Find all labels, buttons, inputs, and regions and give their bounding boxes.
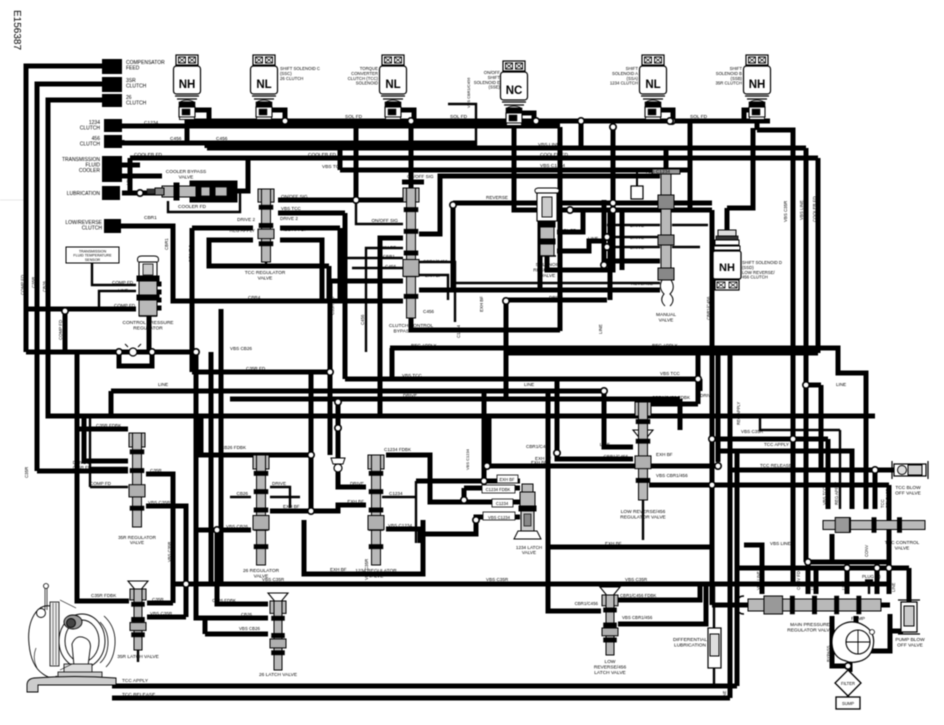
svg-text:DRIVE: DRIVE	[350, 481, 364, 486]
svg-text:VBS C1234: VBS C1234	[465, 448, 470, 470]
wire VBS TCC top	[340, 168, 690, 173]
solenoid NH shift solenoid B?	[174, 55, 201, 120]
junction	[554, 450, 560, 456]
wire onoff sig 2	[356, 200, 403, 224]
wire C1234 right	[382, 496, 416, 498]
svg-text:CBR1/C406: CBR1/C406	[526, 444, 551, 449]
junction	[669, 118, 675, 124]
wire DRIVE 2 left	[192, 226, 253, 231]
wire EXH BF bottom	[548, 545, 712, 550]
svg-text:EXH BF: EXH BF	[330, 567, 347, 572]
svg-text:VBS C35R: VBS C35R	[625, 577, 648, 582]
wire VBS TCC right	[278, 211, 345, 216]
junction	[335, 399, 341, 405]
svg-text:TCC BLOWOFF VALVE: TCC BLOWOFF VALVE	[895, 485, 921, 496]
junction	[461, 497, 467, 503]
svg-text:MAIN PRESSUREREGULATOR VALVE: MAIN PRESSUREREGULATOR VALVE	[787, 622, 833, 633]
junction	[872, 467, 878, 473]
wire C1234 drop long	[558, 127, 563, 331]
wire EXH BF 26-1234	[270, 505, 366, 511]
valve main pressure regulator	[748, 596, 881, 614]
valve 26 latch funnel	[268, 593, 288, 601]
svg-text:DRIVE: DRIVE	[630, 235, 644, 240]
wire cooler out	[236, 158, 248, 191]
wire CBR1/C456 right	[419, 262, 455, 322]
junction	[610, 200, 616, 206]
wire EXH BF	[366, 248, 403, 352]
wire sensor comp fd	[92, 262, 136, 285]
svg-text:CB26: CB26	[42, 280, 47, 292]
svg-text:NL: NL	[645, 79, 660, 91]
node spacer	[0, 199, 26, 201]
svg-text:COOLER FD: COOLER FD	[178, 204, 207, 210]
svg-text:VBS CBR1/C456: VBS CBR1/C456	[466, 77, 471, 108]
svg-text:VBS LINE: VBS LINE	[756, 571, 761, 590]
wire 456 stub	[120, 140, 125, 143]
wire mpr right link	[881, 603, 890, 608]
valve cooler bypass	[147, 181, 237, 202]
junction	[578, 118, 584, 124]
svg-text:CLUTCH CONTROLBYPASS VALVE: CLUTCH CONTROLBYPASS VALVE	[389, 323, 434, 334]
wire CB26 FDBK latch	[217, 530, 268, 604]
wire cooler stub1	[122, 163, 140, 168]
junction	[845, 663, 851, 669]
junction	[533, 118, 539, 124]
valve 26 regulator	[253, 455, 269, 565]
valve low reverse/456 regulator	[635, 402, 651, 500]
svg-text:C1234 FDBK: C1234 FDBK	[486, 487, 511, 492]
label box C1234 FDBK	[482, 485, 515, 493]
svg-text:C35R: C35R	[101, 468, 113, 473]
wire VBS TCC long	[345, 377, 700, 382]
svg-text:LINE: LINE	[722, 690, 727, 700]
svg-text:REG APPLY: REG APPLY	[736, 402, 741, 425]
svg-text:SOL FD: SOL FD	[690, 114, 708, 120]
svg-text:LINE: LINE	[118, 288, 128, 293]
junction	[116, 349, 122, 355]
valve control pressure regulator	[137, 256, 161, 316]
wire CBR1/C456 latch	[548, 391, 601, 611]
svg-text:VBS CBR1/456: VBS CBR1/456	[622, 615, 653, 620]
junction	[353, 197, 359, 203]
wire drive2 right drop	[338, 228, 343, 301]
wire REG APPLY right	[280, 240, 322, 301]
svg-text:REG APPLY: REG APPLY	[652, 343, 677, 348]
wire line right v	[819, 385, 824, 470]
wire DRIVE 1234	[345, 486, 366, 488]
junction	[473, 517, 479, 523]
wire TCC RELEASE	[730, 468, 875, 473]
wire fdbk rise	[696, 348, 701, 404]
svg-text:COOLER FD: COOLER FD	[864, 481, 869, 505]
wire vbs tcc drop	[343, 213, 348, 379]
wire solreg bottom	[547, 210, 613, 270]
wire VBS TCC tcc	[826, 439, 831, 509]
junction	[695, 376, 701, 382]
svg-text:VBS C35R: VBS C35R	[148, 500, 171, 505]
wire drive trunk	[608, 210, 613, 300]
wire comp fd drop	[89, 468, 91, 487]
wire comp fd mid	[26, 350, 192, 355]
transmission fluid temperature sensor	[66, 247, 119, 263]
valve 1234 latch	[514, 484, 541, 539]
svg-text:LINE: LINE	[891, 582, 896, 592]
svg-text:LINE: LINE	[125, 176, 130, 185]
wire vbs rise	[184, 584, 189, 617]
valve pump blow off	[898, 600, 920, 634]
wire C26 right	[270, 496, 300, 498]
svg-text:VBS C35R: VBS C35R	[167, 542, 172, 562]
svg-text:VBS CB26: VBS CB26	[239, 626, 261, 631]
wire C35R FDBK box	[77, 352, 129, 601]
solenoid SSA	[640, 55, 667, 120]
wire tcc reg tail	[265, 262, 267, 266]
wire CB26 FDBK	[201, 416, 311, 455]
svg-text:VBS C35R: VBS C35R	[486, 577, 509, 582]
wire NH1 drop	[185, 118, 190, 143]
svg-text:SOL FD: SOL FD	[560, 228, 577, 233]
svg-text:CB26: CB26	[241, 612, 253, 617]
junction	[282, 118, 288, 124]
svg-text:LOW REVERSE/456REGULATOR VALVE: LOW REVERSE/456REGULATOR VALVE	[620, 509, 666, 520]
port 456 clutch	[104, 135, 122, 148]
plug component	[631, 170, 643, 199]
wire link	[415, 481, 417, 497]
wire DRIVE 2 right	[280, 226, 340, 231]
wire ON/OFF SIG upper	[402, 180, 424, 185]
wire SOL FD out1	[557, 210, 583, 232]
wire plug cap	[865, 579, 873, 581]
wire NH6 drop	[755, 118, 760, 130]
wire VBS CB26 latch	[205, 632, 268, 637]
svg-text:TCC APPLY: TCC APPLY	[764, 442, 789, 447]
wire VBS C35R latch	[147, 615, 186, 620]
wire line drop mpr	[887, 485, 892, 594]
wire EXH BF right	[419, 275, 448, 300]
valve main pressure regulator bracket	[738, 596, 744, 614]
wire DRIVE down	[506, 300, 607, 399]
junction	[149, 349, 155, 355]
svg-text:TCC APPLY: TCC APPLY	[849, 482, 854, 505]
svg-text:REG APPLY: REG APPLY	[834, 482, 839, 505]
svg-text:VBS CBR1/456: VBS CBR1/456	[656, 473, 688, 478]
svg-text:SOL FD: SOL FD	[345, 114, 363, 120]
wire diff lube out	[713, 668, 715, 686]
wire vbs line jog left	[205, 143, 210, 148]
wire left v3	[219, 309, 224, 584]
valve 35R regulator	[129, 433, 145, 527]
svg-text:ON/OFF SIG: ON/OFF SIG	[371, 218, 398, 223]
svg-text:CONV: CONV	[864, 545, 869, 557]
svg-text:C35R FD: C35R FD	[330, 297, 335, 315]
svg-text:DRIVE 2: DRIVE 2	[237, 217, 255, 222]
svg-text:C1234 FDBK: C1234 FDBK	[384, 447, 412, 452]
wire jog NL4	[661, 110, 673, 121]
svg-text:CBR1/C456 FDBK: CBR1/C456 FDBK	[620, 593, 656, 598]
wire jog NL3	[401, 110, 414, 121]
wire CB26 left	[230, 496, 251, 498]
svg-text:COOLER FD: COOLER FD	[308, 152, 337, 158]
svg-text:SUMP: SUMP	[842, 701, 854, 706]
svg-text:CBR1: CBR1	[383, 254, 396, 259]
svg-text:COMP FD: COMP FD	[20, 275, 25, 295]
wire C35R latch	[147, 601, 173, 606]
junction	[214, 527, 220, 533]
wire latch bottom	[137, 650, 139, 662]
junction	[803, 382, 809, 388]
svg-text:C35R: C35R	[150, 468, 162, 473]
wire jog NC	[522, 113, 534, 121]
wire pump to filter	[848, 658, 853, 672]
wire exh bf drop	[482, 391, 487, 481]
svg-text:VBS C1234: VBS C1234	[540, 163, 565, 169]
wire CBR1/CBR4	[120, 226, 403, 301]
wire tcc release riser long	[728, 353, 733, 698]
wire vbs cb26 join	[203, 618, 208, 634]
solenoid TCC	[380, 55, 407, 120]
wire conv fd	[832, 534, 889, 562]
junction	[610, 124, 616, 130]
wire mpr conv	[806, 562, 811, 594]
svg-text:COOLER FD: COOLER FD	[134, 152, 163, 158]
wire reg apply drop left	[390, 348, 395, 379]
wire diff lube in	[713, 584, 715, 628]
junction	[567, 207, 573, 213]
wire mpr left	[712, 603, 748, 608]
svg-text:EXH BF: EXH BF	[283, 504, 300, 509]
wire C456 stub	[352, 267, 403, 269]
svg-text:EXH BF: EXH BF	[535, 456, 552, 461]
junction	[601, 388, 607, 394]
wire VBS CBR1/456	[649, 483, 889, 488]
wire NC to solreg / line bus	[514, 121, 712, 210]
wire cb26 latch	[196, 352, 268, 618]
junction	[308, 452, 314, 458]
wire drive trunk 2	[620, 210, 625, 270]
wire c1234 drop 613	[611, 127, 616, 210]
wire blowoff drop	[907, 568, 912, 602]
svg-text:COMP FD: COMP FD	[114, 303, 136, 308]
wire DRIVE2 35r	[84, 416, 128, 461]
wire CPR bottom drop	[147, 316, 152, 352]
svg-text:VBS LINE: VBS LINE	[538, 142, 560, 148]
wire VBS CBR1/456 out	[618, 584, 706, 624]
svg-text:CBR1/C456: CBR1/C456	[423, 259, 448, 264]
wire c1234 drop r	[415, 497, 417, 543]
svg-text:VBS CB26: VBS CB26	[226, 524, 248, 529]
svg-text:C1234: C1234	[144, 120, 158, 126]
wire CBR1/C456 FDBK	[649, 402, 698, 407]
wire 1234 stub	[120, 124, 125, 126]
svg-text:CBR1: CBR1	[144, 215, 157, 221]
junction	[193, 349, 199, 355]
svg-text:PLUG (2): PLUG (2)	[862, 574, 881, 579]
wire VBS C1234	[386, 529, 420, 543]
junction	[667, 118, 673, 124]
wire check branch	[338, 402, 366, 487]
svg-text:REVERSE: REVERSE	[486, 195, 508, 200]
svg-text:CB26 FDBK: CB26 FDBK	[212, 598, 236, 603]
svg-text:VBS C35R: VBS C35R	[150, 611, 173, 616]
svg-text:VBS TCC: VBS TCC	[822, 487, 827, 505]
wire jog NL2	[272, 110, 285, 121]
wire VBS LINE vertical	[804, 148, 809, 562]
wire DRIVE m2	[607, 236, 660, 238]
svg-text:LINE: LINE	[158, 382, 168, 387]
wire VBS C35R out	[146, 506, 186, 584]
svg-text:CONV FD: CONV FD	[796, 571, 801, 590]
wire mpr line port	[814, 568, 819, 594]
wire cb26 vert	[309, 372, 314, 508]
wire DRIVE m right	[672, 224, 708, 226]
svg-text:CBR1/C456: CBR1/C456	[575, 601, 599, 606]
pump	[832, 622, 875, 662]
svg-text:NH: NH	[179, 79, 196, 91]
wire VBS C35R right	[712, 437, 828, 442]
solenoid SSD	[713, 230, 741, 290]
junction	[790, 436, 796, 442]
svg-text:MANUALVALVE: MANUALVALVE	[656, 312, 676, 323]
port transmission fluid cooler	[102, 156, 122, 182]
wire NL2 drop	[262, 118, 267, 121]
wire filter to sump	[847, 694, 849, 697]
wire left v2	[209, 352, 214, 584]
svg-text:C35R FD: C35R FD	[379, 278, 399, 283]
sump	[836, 697, 860, 709]
wire DRIVE m right2	[672, 246, 700, 248]
svg-text:TCC APPLY: TCC APPLY	[122, 678, 149, 684]
wire bus drop 690	[688, 121, 693, 210]
svg-text:C35R: C35R	[152, 597, 164, 602]
wire DRIVE m3	[607, 246, 660, 248]
svg-text:TCC RELEASE: TCC RELEASE	[122, 692, 155, 698]
torque converter	[27, 584, 116, 693]
wire REG APPLY tcc	[839, 430, 841, 509]
junction	[308, 508, 314, 514]
svg-text:COOLER FD: COOLER FD	[812, 196, 817, 222]
wire C35R right to latch	[146, 474, 173, 603]
junction	[327, 369, 333, 375]
svg-text:EXH BF: EXH BF	[347, 499, 364, 504]
junction	[450, 202, 456, 208]
svg-text:35R LATCH VALVE: 35R LATCH VALVE	[117, 654, 159, 660]
svg-text:C456: C456	[385, 264, 396, 269]
wire reg apply drop	[327, 266, 332, 301]
svg-text:LINE: LINE	[810, 580, 815, 590]
svg-text:DRIVE: DRIVE	[423, 232, 437, 237]
svg-text:VBS C1234: VBS C1234	[645, 169, 670, 175]
svg-text:CB26: CB26	[237, 491, 249, 496]
port 26 clutch	[102, 94, 122, 107]
svg-text:CB26 FDBK: CB26 FDBK	[221, 445, 247, 450]
svg-text:VBS C35R: VBS C35R	[783, 201, 788, 222]
junction	[481, 478, 487, 484]
valve low reverse/456 latch	[602, 595, 618, 655]
svg-text:C35R: C35R	[31, 277, 36, 288]
wire cooler elbow	[128, 158, 133, 193]
valve 35R latch	[130, 589, 146, 650]
wire VBS C35R long	[173, 582, 889, 587]
wire ssd feed	[727, 128, 753, 208]
svg-text:VBS C35R: VBS C35R	[741, 429, 764, 434]
valve differential lubrication	[708, 628, 721, 668]
svg-text:VBS TCC: VBS TCC	[322, 164, 343, 170]
svg-text:VBS LINE: VBS LINE	[208, 143, 230, 149]
wire reverse riser	[451, 203, 456, 290]
wire NC drop	[512, 118, 517, 121]
junction	[604, 234, 610, 240]
svg-text:CBR1/C456: CBR1/C456	[603, 454, 628, 459]
svg-text:REG APPLY: REG APPLY	[411, 343, 436, 348]
wire VBS CB26	[196, 528, 251, 533]
wire tcc apply riser	[735, 451, 740, 686]
wire C1234 FDBK latch	[464, 486, 520, 491]
svg-text:VBS C35R: VBS C35R	[364, 559, 369, 580]
valve clutch control bypass	[403, 188, 419, 318]
svg-text:DRIVE 2/C35R FD: DRIVE 2/C35R FD	[73, 460, 92, 470]
svg-text:LINE: LINE	[836, 382, 846, 387]
port lubrication	[102, 186, 120, 200]
wire reverse drop	[538, 203, 543, 290]
port low/reverse clutch	[104, 219, 121, 233]
svg-text:DRIVE 2: DRIVE 2	[188, 244, 193, 262]
wire COMP FD trunk	[26, 66, 136, 309]
svg-text:VBS TCC: VBS TCC	[402, 373, 423, 378]
junction	[335, 425, 341, 431]
valve TCC control	[823, 518, 925, 533]
svg-text:COOLER FD: COOLER FD	[540, 152, 569, 158]
port 1234 clutch	[104, 119, 122, 132]
wire line mid right	[507, 351, 818, 356]
wire to blow off	[875, 468, 894, 473]
wire C456 bottom	[411, 318, 560, 330]
svg-text:LINE: LINE	[632, 259, 642, 264]
valve low reverse/456 regulator mid funnel	[633, 430, 653, 438]
solenoid SSB	[744, 55, 771, 120]
svg-text:EXH BF: EXH BF	[425, 273, 442, 278]
wire conv fd 2	[806, 560, 889, 565]
wire C35R FD 35r	[90, 416, 128, 468]
svg-text:C1234: C1234	[389, 491, 403, 496]
wire C35R FD	[330, 281, 403, 455]
wire REG APPLY long / COOLER FD tcc	[390, 348, 866, 509]
svg-text:CBR1/C456 FDBK: CBR1/C456 FDBK	[652, 395, 691, 400]
wire ON/OFF SIG	[278, 198, 411, 203]
wire VBS C1234 latch	[423, 517, 520, 534]
svg-text:DRIVE 2: DRIVE 2	[378, 235, 396, 240]
svg-text:DRIVE 2: DRIVE 2	[280, 216, 298, 221]
filter	[835, 670, 861, 696]
wire line left trunk	[710, 416, 715, 605]
junction	[408, 118, 414, 124]
junction	[137, 190, 143, 196]
svg-text:VBS TCC: VBS TCC	[660, 371, 681, 376]
wire DRIVE 2	[380, 238, 403, 416]
wire REVERSE m	[453, 282, 660, 284]
wire drive elbow	[678, 399, 683, 430]
svg-text:SOL FD: SOL FD	[560, 248, 577, 253]
wire C35R FDBK	[77, 427, 128, 432]
wire COMP FD branch	[65, 311, 196, 352]
wire vbs line jog	[806, 383, 821, 388]
wire cooler stub2	[122, 174, 162, 179]
wire drive2 vert	[190, 228, 195, 372]
svg-text:VBS C35R: VBS C35R	[262, 577, 285, 582]
svg-text:LINE: LINE	[598, 324, 603, 334]
svg-text:LINE: LINE	[524, 382, 534, 387]
wire mpr line2	[875, 568, 880, 594]
wire vbs tcc elbow2	[698, 379, 703, 391]
